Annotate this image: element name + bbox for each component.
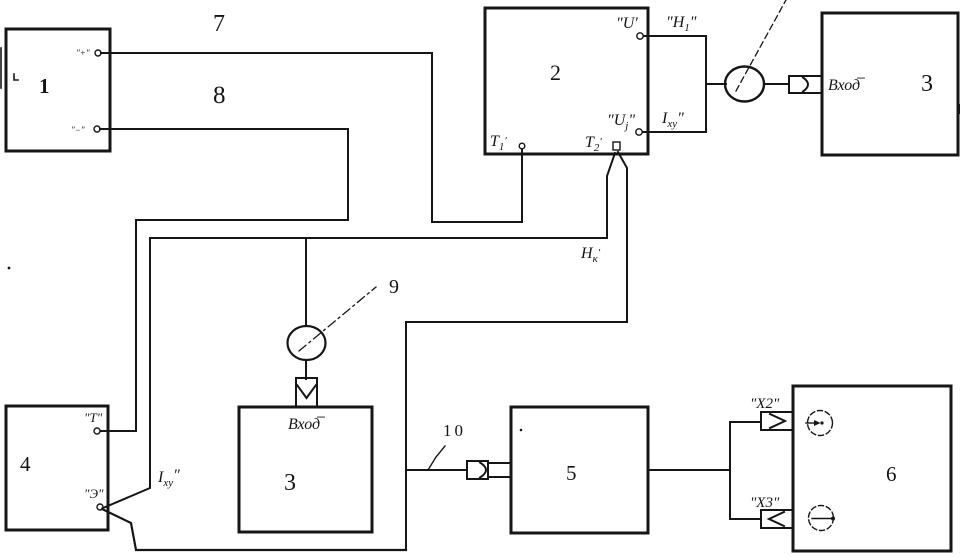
svg-text:"−": "−" — [71, 125, 85, 135]
block 5 label — [566, 461, 577, 485]
svg-text:Iху": Iху" — [661, 110, 684, 130]
svg-text:1: 1 — [39, 74, 50, 98]
block 2 (box) — [485, 8, 648, 154]
svg-text:Т2′: Т2′ — [585, 134, 602, 154]
block 3 (bottom centre box) — [239, 407, 372, 532]
element 9 label — [389, 276, 399, 298]
wire 7 label — [213, 11, 225, 37]
svg-text:Вход̅: Вход̅ — [828, 77, 865, 94]
connector plug into block 3 input — [789, 76, 822, 93]
block 4 label — [20, 452, 31, 476]
block 3 label — [921, 71, 933, 97]
coax socket symbol top in block 6 — [806, 411, 833, 436]
terminal "+" of block 1 — [76, 48, 101, 58]
stray scan dot left middle — [8, 267, 11, 270]
connector plug into bottom block 3 input — [296, 378, 317, 407]
wire Hk label — [580, 245, 601, 265]
junction bracket (cable pair) — [705, 36, 707, 132]
svg-text:Вход̅: Вход̅ — [288, 416, 325, 433]
stray scan mark left of block 1 — [1, 48, 18, 88]
scan tick at right edge near block 3 — [958, 105, 960, 113]
svg-text:10: 10 — [443, 421, 466, 440]
wire bracket to adapter circle — [706, 83, 726, 85]
svg-text:4: 4 — [20, 452, 31, 476]
svg-text:5: 5 — [566, 461, 577, 485]
wire block 5 to bracket — [648, 469, 730, 471]
dashed callout line through adapter circle — [736, 0, 786, 91]
svg-text:9: 9 — [389, 276, 399, 298]
svg-text:"Э": "Э" — [84, 486, 104, 501]
svg-text:"Uj": "Uj" — [607, 112, 635, 132]
wire 10 : junction to connector of block 5 — [406, 469, 467, 471]
wire Ixy (top) : Uj terminal to junction bracket — [643, 131, 706, 133]
connector plug into block 5 — [467, 461, 511, 479]
wire 8 label — [213, 82, 226, 109]
svg-text:7: 7 — [213, 11, 225, 37]
terminal T1 of block 2 — [490, 133, 525, 153]
bracket to X2/X3 — [730, 422, 761, 519]
wire element 9 to connector — [305, 360, 307, 379]
svg-text:"U′: "U′ — [616, 15, 638, 32]
connector X2 into block 6 — [761, 412, 792, 430]
svg-text:3: 3 — [921, 71, 933, 97]
block 1 (box) — [6, 29, 110, 151]
block 4 (box) — [6, 406, 108, 530]
block 5 (box) — [511, 407, 648, 533]
svg-text:3: 3 — [284, 470, 296, 496]
element 9 dash-dot callout — [299, 287, 376, 351]
wire to element 9 — [305, 238, 307, 326]
wire 7 : block1 "+" to T1 of block 2 — [101, 53, 522, 222]
block 6 label — [886, 462, 897, 486]
connector X3 label — [750, 495, 780, 511]
wire 8 : block1 "-" to T terminal of block 4 — [100, 129, 348, 431]
svg-text:"Х2": "Х2" — [750, 396, 780, 412]
block 1 label — [39, 74, 50, 98]
connector X2 label — [750, 396, 780, 412]
svg-text:Iху″: Iху″ — [157, 467, 180, 489]
wire Ixy (top) label — [661, 110, 684, 130]
svg-text:"+": "+" — [76, 48, 90, 58]
connector X3 into block 6 — [761, 510, 792, 528]
svg-text:"Х3": "Х3" — [750, 495, 780, 511]
bottom block 3 label — [284, 470, 296, 496]
bottom block 3 input label — [288, 416, 325, 433]
wire 10 callout line — [428, 446, 445, 470]
terminal "-" of block 1 — [71, 125, 100, 135]
terminal "U" of block 2 — [616, 15, 643, 39]
terminal "Uj" of block 2 — [607, 112, 642, 135]
wire H1 label — [666, 14, 697, 34]
wire 10 label — [443, 421, 466, 440]
svg-text:Т1′: Т1′ — [490, 133, 507, 153]
block 3 input label — [828, 77, 865, 94]
wire circle to connector of block 3 — [764, 83, 789, 85]
block 3 (top right box) — [822, 13, 958, 155]
element 9 circle — [288, 326, 326, 360]
svg-text:2: 2 — [550, 60, 561, 85]
terminal T2 of block 2 — [585, 134, 620, 154]
wire Ixy (bottom) label — [157, 467, 180, 489]
block 6 (box) — [793, 386, 951, 551]
block 2 label — [550, 60, 561, 85]
stray scan dot near wire 10 — [520, 429, 523, 432]
wire Hk : from Э of block 4 up and right into T2 (arrow) — [103, 153, 615, 508]
coax socket symbol bottom in block 6 — [809, 506, 836, 531]
adapter circle (element between block 2 and block 3) — [725, 67, 764, 102]
svg-text:"Н1": "Н1" — [666, 14, 697, 34]
bottom bus wire : to Э terminal of block 4 — [102, 509, 406, 550]
wire H1 : U terminal to junction bracket — [644, 35, 706, 37]
svg-text:Нк′: Нк′ — [580, 245, 601, 265]
svg-text:8: 8 — [213, 82, 226, 109]
terminal Э of block 4 — [84, 486, 104, 510]
terminal T of block 4 — [84, 410, 103, 434]
svg-text:6: 6 — [886, 462, 897, 486]
svg-text:"Т": "Т" — [84, 410, 103, 425]
wire T2 branch : T2 down, left, down to bus junction — [406, 152, 627, 550]
